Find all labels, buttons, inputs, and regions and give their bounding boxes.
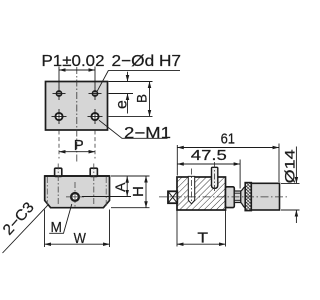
dimension phi 14 xyxy=(281,147,300,224)
flare xyxy=(241,187,245,208)
neck rod xyxy=(234,191,241,203)
screw pin in block xyxy=(212,167,218,188)
main block hatched xyxy=(177,177,226,210)
hole B1 (bottom-left, 2-M1) xyxy=(52,109,67,124)
dimension 61 xyxy=(177,130,279,182)
right pin xyxy=(90,168,97,176)
block body with chamfered bottom corners xyxy=(45,176,110,208)
svg-text:A: A xyxy=(112,182,128,192)
extension line top hole row xyxy=(109,93,134,95)
extension line bottom hole row xyxy=(109,115,153,117)
extension line plate top edge xyxy=(109,81,153,83)
dimension e (edge to first hole row, outside arrows) xyxy=(114,72,131,114)
plate vertical centerline xyxy=(76,67,78,162)
chamfer edge line left xyxy=(46,177,48,206)
svg-text:47.5: 47.5 xyxy=(191,147,227,164)
hole B2 (bottom-right, 2-M1) xyxy=(88,109,103,124)
dimension H xyxy=(111,176,150,208)
slot centerline xyxy=(191,169,193,202)
svg-text:Ø14: Ø14 xyxy=(281,149,297,183)
dimension P xyxy=(59,131,95,159)
svg-text:H: H xyxy=(130,186,147,197)
chamfer edge line right xyxy=(105,177,107,206)
dimension B (edge to second hole row) xyxy=(135,82,150,117)
hole A2 (top-right, 2-phi d H7) xyxy=(89,87,102,100)
block top edge over pins xyxy=(45,175,110,177)
left pin centerline xyxy=(57,164,59,206)
svg-text:e: e xyxy=(114,100,131,109)
svg-text:B: B xyxy=(135,94,150,103)
sectioned ring (cross hatch) xyxy=(245,183,251,211)
left pin xyxy=(55,168,62,176)
center hole M xyxy=(66,182,84,207)
dimension T xyxy=(177,211,226,247)
plate body xyxy=(46,82,108,131)
label M with leader xyxy=(49,204,72,236)
svg-text:2−Ød H7: 2−Ød H7 xyxy=(112,53,182,70)
assembly centerline xyxy=(159,196,287,198)
label 2-C3 with leader xyxy=(0,199,48,253)
left nub (set screw end with cross) xyxy=(168,191,177,203)
label 2-phi d H7 with leader xyxy=(97,53,181,91)
collar xyxy=(226,187,235,208)
hole A1 (top-left, 2-phi d H7) xyxy=(53,87,66,100)
right pin centerline xyxy=(93,164,95,206)
dimension W xyxy=(45,210,110,248)
dimension P1±0.02 xyxy=(42,53,105,88)
svg-text:61: 61 xyxy=(221,130,235,147)
screw centerline xyxy=(214,162,216,192)
svg-text:W: W xyxy=(74,230,87,247)
dimension 47.5 xyxy=(177,147,240,188)
svg-text:2−M1: 2−M1 xyxy=(124,125,171,142)
cylinder body xyxy=(251,183,279,210)
label 2-M1 with leader xyxy=(99,120,171,142)
svg-text:P: P xyxy=(74,137,84,154)
drilled hole (white slot with V tip) xyxy=(188,176,194,203)
dimension A xyxy=(82,176,131,196)
svg-text:T: T xyxy=(197,229,208,246)
